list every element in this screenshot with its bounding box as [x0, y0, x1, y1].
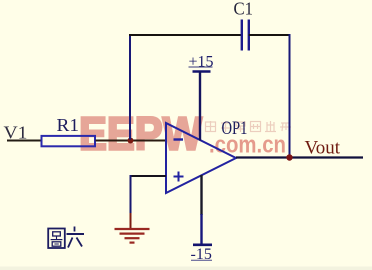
- svg-text:+15: +15: [189, 54, 214, 71]
- wire feedback top horizontal: [129, 34, 242, 36]
- wire output: [236, 156, 363, 158]
- wire feedback vertical left: [129, 34, 131, 140]
- ground: [115, 213, 150, 243]
- resistor R1: [42, 115, 96, 146]
- svg-text:V1: V1: [4, 123, 28, 143]
- svg-text:OP1: OP1: [222, 119, 248, 139]
- power +15: [189, 54, 214, 141]
- node output junction: [286, 154, 292, 160]
- svg-text:Vout: Vout: [305, 139, 341, 159]
- label figure caption 圖六: [48, 227, 84, 249]
- node junction at inverting input: [128, 138, 134, 144]
- wire to ground: [130, 175, 132, 214]
- op-amp OP1: [166, 119, 248, 193]
- svg-text:R1: R1: [57, 115, 80, 135]
- wire non-inverting input: [130, 175, 167, 177]
- wire R1 to inverting input: [96, 140, 167, 142]
- svg-text:C1: C1: [234, 0, 254, 19]
- wire input from V1 to resistor R1: [7, 140, 42, 142]
- wire feedback vertical right down to output node: [289, 34, 291, 158]
- wire C1 to output branch horizontal: [249, 34, 291, 36]
- svg-text:EEPW: EEPW: [79, 108, 203, 160]
- capacitor C1: [234, 0, 254, 51]
- power -15: [191, 175, 213, 263]
